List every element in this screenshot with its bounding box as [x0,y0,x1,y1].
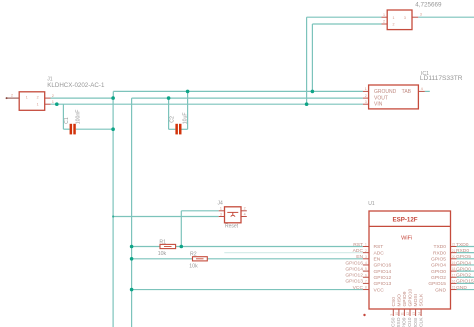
wire VOUT vertical [131,98,133,327]
svg-text:GPIO13: GPIO13 [374,281,392,287]
pin SW.1 [382,16,388,18]
svg-text:RST: RST [374,244,384,250]
svg-text:3: 3 [404,16,406,20]
svg-text:TXD0: TXD0 [433,244,446,250]
wire GND right [457,289,474,291]
pin U1 GPIO16 [363,264,369,266]
wire switch pin1 vertical to VIN [306,17,308,104]
svg-text:WiFi: WiFi [401,235,412,241]
wire VCC row [132,289,363,291]
svg-text:CS0: CS0 [391,317,397,327]
svg-text:21: 21 [452,249,456,253]
wire GPIO2 [457,276,474,278]
svg-text:R2: R2 [190,252,197,258]
wire GPIO5 [457,258,474,260]
svg-text:19: 19 [452,261,456,265]
pin IC1.2 [363,97,369,99]
pin U1 GPIO12 [363,276,369,278]
svg-text:GPIO10: GPIO10 [408,289,414,307]
pin U1 RST [363,246,369,248]
svg-text:20: 20 [452,255,456,259]
pin U1 GPIO5 [451,258,457,260]
wire GPIO4 [457,264,474,266]
node GND at C1 [111,127,115,131]
pin SW.2 [382,23,388,25]
wire VOUT horizontal to IC1 [132,97,363,99]
wire EN row left of R2 [132,258,193,260]
svg-text:10: 10 [395,312,399,316]
wire C2 left horizontal [169,128,176,130]
svg-text:1: 1 [52,100,54,104]
svg-text:SCLK: SCLK [418,317,424,327]
svg-text:EN: EN [356,254,363,260]
wire C1 left vertical from VIN [62,104,64,129]
svg-text:2: 2 [383,20,385,24]
svg-text:1: 1 [26,95,28,99]
svg-text:1: 1 [365,243,367,247]
svg-text:LD1117S33TR: LD1117S33TR [420,75,463,82]
pin J4.2 [241,210,247,212]
svg-text:GPIO12: GPIO12 [345,273,363,279]
svg-text:2: 2 [37,95,39,99]
svg-text:10k: 10k [189,264,198,270]
node GROUND at switch vertical [311,90,315,94]
svg-text:VCC: VCC [353,285,364,291]
wire RST row right of R1 to ESP [176,246,363,248]
svg-text:C2: C2 [170,116,176,123]
pin U1 CS0 bottom [392,309,394,316]
svg-text:1: 1 [393,16,395,20]
svg-text:2: 2 [11,94,13,98]
svg-text:TXD0: TXD0 [456,242,469,248]
node marker below U1 [363,314,365,316]
svg-text:ESP-12F: ESP-12F [392,217,417,224]
capacitor C2 plates [175,124,181,135]
svg-text:GPIO2: GPIO2 [431,275,446,281]
node VOUT at VCC row [130,288,134,292]
svg-text:Reset: Reset [225,224,239,230]
svg-text:RXD0: RXD0 [456,248,469,254]
resistor R1 body [160,244,176,248]
svg-text:3: 3 [420,13,422,17]
capacitor C1 plates [70,124,76,135]
svg-text:GND: GND [435,287,446,293]
pin J1.2 [45,97,51,99]
svg-text:GPIO0: GPIO0 [456,266,471,272]
svg-text:RXD0: RXD0 [433,250,446,256]
pin U1 RXD0 [451,252,457,254]
pin IC1.3 [363,103,369,105]
svg-text:3: 3 [365,255,367,259]
svg-text:10uF: 10uF [182,112,188,124]
svg-text:GND: GND [456,285,467,291]
svg-text:1: 1 [383,13,385,17]
pin SW.3 [412,16,418,18]
svg-text:14: 14 [417,312,421,316]
svg-text:VCC: VCC [374,287,385,293]
svg-text:1: 1 [37,103,39,107]
connector J1 body [19,92,45,111]
svg-text:15: 15 [452,286,456,290]
svg-text:7: 7 [365,280,367,284]
node VOUT at RST pullup [130,245,134,249]
wire EN row right of R2 to ESP [207,258,363,260]
pin U1 MISO bottom [398,309,400,316]
svg-text:GPIO10: GPIO10 [407,317,413,327]
svg-text:TAB: TAB [402,89,412,95]
svg-text:GPIO5: GPIO5 [431,257,446,263]
svg-text:GPIO2: GPIO2 [456,273,471,279]
svg-text:GPIO9: GPIO9 [402,291,408,306]
svg-text:GPIO16: GPIO16 [345,260,363,266]
pin J4.4 [241,216,247,218]
svg-text:17: 17 [452,273,456,277]
svg-text:GPIO9: GPIO9 [402,317,408,327]
node VOUT at EN pullup [130,257,134,261]
svg-text:6: 6 [365,273,367,277]
svg-text:2: 2 [244,206,246,210]
button J4 switch glyph [227,212,238,216]
pin U1 EN [363,258,369,260]
wire TXD0 [457,246,474,248]
svg-text:VIN: VIN [374,102,383,108]
svg-text:4: 4 [365,261,367,265]
svg-text:R1: R1 [159,239,166,245]
regulator IC1 body [369,85,419,109]
pin J1.1 [45,103,51,105]
svg-text:9: 9 [390,314,394,316]
pin U1 GPIO13 [363,282,369,284]
svg-text:GPIO12: GPIO12 [374,275,392,281]
wire button pin1 vertical to RST [180,211,182,247]
wire TAB stub [425,90,430,92]
svg-text:MISO: MISO [396,317,402,327]
svg-text:SCLK: SCLK [419,293,425,307]
wire C2 left vertical from VOUT [168,98,170,129]
wire GPIO0 [457,270,474,272]
svg-text:1: 1 [220,206,222,210]
pin U1 MOSI bottom [415,309,417,316]
wire GROUND horizontal to IC1 [113,90,363,92]
wire C1 left horizontal [63,128,69,130]
wire J1 pin2 to GND junction [51,97,114,99]
node VIN at J1 pin1 [55,102,59,106]
svg-text:CS0: CS0 [391,297,397,307]
pin U1 GPIO0 [451,270,457,272]
wire C1 right to GND vertical [76,128,113,130]
svg-text:ADC: ADC [374,250,385,256]
wire button pin3 to GND vertical [113,216,219,218]
svg-text:2: 2 [52,94,54,98]
node VOUT at C2 [167,96,171,100]
svg-text:3: 3 [220,213,222,217]
wire ADC faint [224,252,363,254]
node GND at J1 pin2 jog [111,96,115,100]
resistor R2 body [193,257,208,261]
svg-text:C1: C1 [64,117,70,124]
svg-text:RST: RST [353,242,363,248]
svg-text:11: 11 [401,312,405,316]
svg-text:1: 1 [365,87,367,91]
wire switch pin2 horizontal [312,23,381,25]
svg-text:2: 2 [365,94,367,98]
pin J1.3 left lead [6,97,19,99]
esp module U1 header divider [369,225,451,227]
svg-text:MISO: MISO [396,294,402,307]
node GND at button pin3 [112,215,114,217]
svg-text:2: 2 [365,249,367,253]
svg-text:GPIO4: GPIO4 [456,260,471,266]
svg-text:2: 2 [393,23,395,27]
pin U1 TXD0 [451,246,457,248]
button J4 body [225,207,242,223]
pin U1 GPIO14 [363,270,369,272]
switch SW body [387,10,412,30]
wire GND long vertical [112,98,114,327]
svg-text:8: 8 [365,286,367,290]
wire RXD0 [457,252,474,254]
wire C2 right vertical to GROUND [187,91,189,129]
svg-text:EN: EN [374,257,381,263]
svg-text:16: 16 [452,280,456,284]
wire VIN J1 pin1 to IC1 [51,103,363,105]
svg-text:100nF: 100nF [76,110,82,125]
wire switch pin2 vertical to GROUND [311,24,313,91]
svg-text:4: 4 [421,87,423,91]
pin U1 VCC [363,289,369,291]
pin U1 ADC [363,252,369,254]
svg-text:MOSI: MOSI [413,294,419,307]
svg-text:13: 13 [412,312,416,316]
svg-text:12: 12 [406,312,410,316]
pin U1 GPIO2 [451,276,457,278]
svg-text:4: 4 [244,213,246,217]
svg-text:GPIO14: GPIO14 [374,269,392,275]
pin U1 GPIO10 bottom [409,309,411,316]
wire RST row left of R1 [132,246,160,248]
svg-text:U1: U1 [368,201,375,207]
wire switch pin1 horizontal [307,16,382,18]
pin U1 GPIO15 [451,282,457,284]
svg-text:ADC: ADC [353,248,364,254]
pin J4.3 [219,216,225,218]
svg-text:GPIO13: GPIO13 [345,279,363,285]
svg-text:GPIO4: GPIO4 [431,263,446,269]
svg-text:22: 22 [452,243,456,247]
pin J1.3 endpoint [6,97,8,99]
svg-text:GPIO14: GPIO14 [345,266,363,272]
wire button pin1 horizontal [181,210,218,212]
svg-text:GPIO0: GPIO0 [431,269,446,275]
wire GPIO15 [457,282,474,284]
esp module U1 body [369,211,451,309]
svg-text:MOSI: MOSI [413,318,419,327]
svg-text:4,725669: 4,725669 [415,2,442,9]
wire C2 right horizontal [182,128,188,130]
pin IC1.1 [363,90,369,92]
svg-text:GPIO16: GPIO16 [374,263,392,269]
svg-text:5: 5 [365,267,367,271]
node GROUND at C2 [186,90,190,94]
svg-text:GPIO15: GPIO15 [428,281,446,287]
svg-text:KLDHCX-0202-AC-1: KLDHCX-0202-AC-1 [47,82,105,89]
pin IC1.4 TAB [418,90,424,92]
svg-text:GPIO15: GPIO15 [456,279,474,285]
node RST at button vertical [180,245,184,249]
svg-text:18: 18 [452,267,456,271]
pin U1 SCLK bottom [420,309,422,316]
svg-text:GROUND: GROUND [374,89,397,95]
svg-text:10k: 10k [158,251,167,257]
node VIN at switch vertical [305,102,309,106]
svg-text:3: 3 [365,100,367,104]
svg-text:GPIO5: GPIO5 [456,254,471,260]
wire switch pin3 to right edge [418,16,474,18]
pin J4.1 [219,210,225,212]
pin U1 GPIO4 [451,264,457,266]
pin U1 GND [451,289,457,291]
wire GND jog vertical [112,91,114,98]
pin U1 GPIO9 bottom [403,309,405,316]
